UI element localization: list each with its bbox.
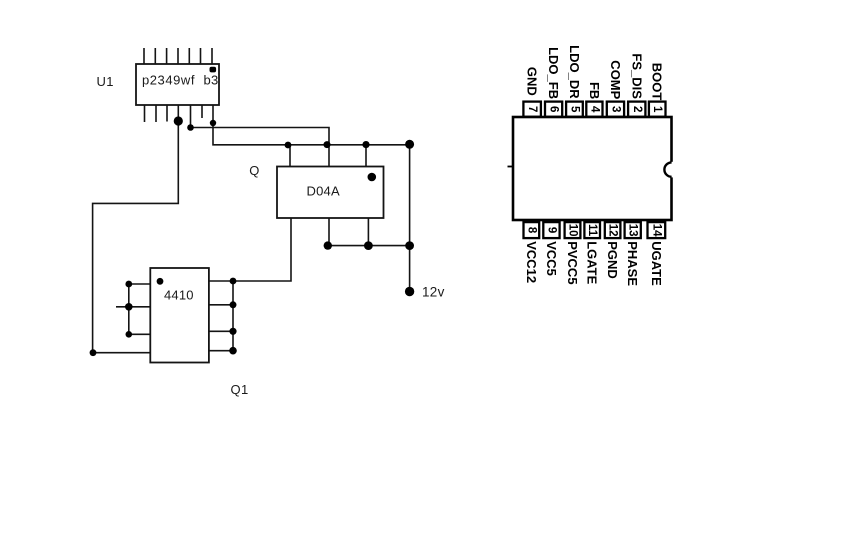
bottom rail wire — [328, 245, 410, 247]
wire Q bottom pin b — [367, 218, 369, 246]
node 4410 left pin1 — [125, 281, 132, 288]
wire U1 pin4 down — [93, 121, 179, 353]
op-amp U2 package body — [513, 117, 672, 220]
transistor Q1 body 4410 — [150, 268, 209, 363]
U1 top pin 7 — [211, 48, 213, 64]
node bottom rail B — [364, 241, 373, 250]
svg-text:p2349wf: p2349wf — [142, 73, 195, 88]
svg-text:VCC12: VCC12 — [524, 241, 539, 283]
pin 10 box — [565, 222, 581, 238]
svg-text:U1: U1 — [97, 74, 114, 89]
U1 top pin 4 — [177, 48, 179, 64]
svg-text:PVCC5: PVCC5 — [565, 241, 580, 284]
svg-text:D04A: D04A — [307, 184, 340, 199]
Q1 pin1 indicator dot — [157, 278, 164, 285]
node 12v terminal — [405, 287, 414, 296]
pin 13 box — [625, 222, 641, 238]
svg-text:LDO_DR: LDO_DR — [567, 45, 582, 99]
pin 8 box — [524, 222, 540, 238]
svg-text:GND: GND — [525, 67, 540, 96]
node top rail D — [405, 140, 414, 149]
svg-text:PGND: PGND — [605, 241, 620, 279]
pin 2 box — [628, 102, 645, 117]
wire 4410 left pin2 — [116, 306, 150, 308]
pin 1 box — [649, 102, 666, 117]
svg-text:12v: 12v — [422, 285, 445, 300]
pin 4 box — [586, 102, 602, 117]
IC U1 body — [136, 64, 219, 105]
wire 4410 right pin4 — [209, 350, 233, 352]
Q pin1 indicator dot — [368, 173, 377, 182]
node 4410 left pin3 — [126, 331, 133, 338]
U1 bottom pin 3 — [166, 105, 168, 122]
node top rail A — [285, 142, 292, 149]
node U1 pin5 — [187, 124, 194, 131]
node U1 pin4 — [174, 116, 183, 125]
svg-text:FS_DIS: FS_DIS — [629, 53, 644, 99]
node 4410 source — [90, 349, 97, 356]
U1 top pin 2 — [154, 48, 156, 64]
U1 bottom pin 6 — [201, 105, 203, 118]
svg-text:5: 5 — [569, 106, 581, 113]
svg-text:2: 2 — [631, 106, 643, 112]
svg-text:UGATE: UGATE — [649, 241, 664, 286]
node top rail B — [324, 141, 331, 148]
svg-text:b3: b3 — [204, 73, 219, 88]
wire U1 pin5 to top rail — [191, 128, 330, 167]
node bottom rail A — [324, 241, 332, 249]
svg-text:BOOT: BOOT — [650, 63, 665, 101]
pin1 notch mask — [668, 162, 675, 178]
pin 5 box — [566, 102, 583, 117]
svg-text:Q: Q — [249, 163, 259, 178]
node 4410 right pin4 — [229, 347, 237, 355]
node bottom rail C — [405, 241, 414, 250]
pin 12 box — [605, 222, 621, 238]
svg-text:9: 9 — [546, 227, 558, 233]
U1 top pin 5 — [188, 48, 190, 64]
wire U1 pin7 to node — [213, 123, 288, 145]
wire 4410 right pin3 — [209, 330, 233, 332]
svg-text:Q1: Q1 — [231, 382, 249, 397]
U1 top pin 6 — [200, 48, 202, 64]
U1 bottom pin 4 — [177, 105, 179, 121]
wire 4410 drain rail — [232, 281, 234, 351]
node U1 pin7 — [210, 120, 216, 126]
svg-text:FB: FB — [587, 82, 602, 99]
U1 bottom pin 1 — [144, 105, 146, 122]
U1 bottom pin 5 — [190, 105, 192, 127]
pin 14 box — [648, 222, 666, 238]
wire 4410 right pin1 — [209, 280, 233, 282]
wire rail to Q pin a — [289, 145, 291, 167]
left edge tick — [508, 166, 514, 168]
top rail wire — [288, 144, 410, 146]
wire 4410 gate rail — [128, 284, 130, 334]
transistor Q body D04A — [277, 167, 384, 219]
svg-text:10: 10 — [567, 224, 579, 237]
node 4410 right pin2 — [230, 301, 237, 308]
svg-text:4: 4 — [588, 106, 600, 113]
svg-text:14: 14 — [650, 224, 662, 237]
svg-text:12: 12 — [607, 224, 619, 237]
svg-text:LDO_FB: LDO_FB — [546, 47, 561, 99]
node top rail C — [362, 141, 369, 148]
node 4410 left pin2 — [125, 303, 133, 311]
svg-text:3: 3 — [610, 106, 622, 112]
wire 4410 left pin1 — [129, 283, 151, 285]
pin 7 box — [523, 102, 541, 117]
pin1 notch — [664, 162, 671, 176]
U1 top pin 1 — [143, 48, 145, 64]
svg-text:COMP: COMP — [608, 60, 623, 99]
svg-text:8: 8 — [525, 227, 537, 234]
U1 pin1 indicator — [210, 67, 217, 73]
pin 3 box — [607, 102, 624, 117]
svg-text:VCC5: VCC5 — [544, 241, 559, 276]
node 4410 right pin3 — [229, 328, 236, 335]
svg-text:6: 6 — [548, 106, 560, 112]
wire Q gate down — [233, 218, 291, 281]
wire 4410 right pin2 — [209, 304, 233, 306]
svg-text:PHASE: PHASE — [625, 241, 640, 286]
svg-text:1: 1 — [651, 106, 663, 113]
pin 11 box — [584, 222, 600, 238]
pin 6 box — [545, 102, 562, 117]
U1 bottom pin 7 — [212, 105, 214, 123]
svg-text:LGATE: LGATE — [585, 241, 600, 284]
svg-text:13: 13 — [627, 224, 639, 237]
wire rail to Q pin c — [365, 145, 367, 167]
U1 bottom pin 2 — [155, 105, 157, 122]
pin 9 box — [543, 222, 559, 238]
U1 top pin 3 — [166, 48, 168, 64]
wire 4410 left pin3 — [129, 333, 151, 335]
svg-text:4410: 4410 — [164, 288, 194, 303]
svg-text:7: 7 — [526, 106, 538, 112]
wire 12v riser — [409, 145, 411, 292]
svg-text:11: 11 — [586, 224, 598, 237]
wire 4410 source pin — [93, 352, 151, 354]
node Q gate / 4410 drain — [230, 278, 237, 285]
wire Q bottom pin a — [328, 218, 330, 246]
